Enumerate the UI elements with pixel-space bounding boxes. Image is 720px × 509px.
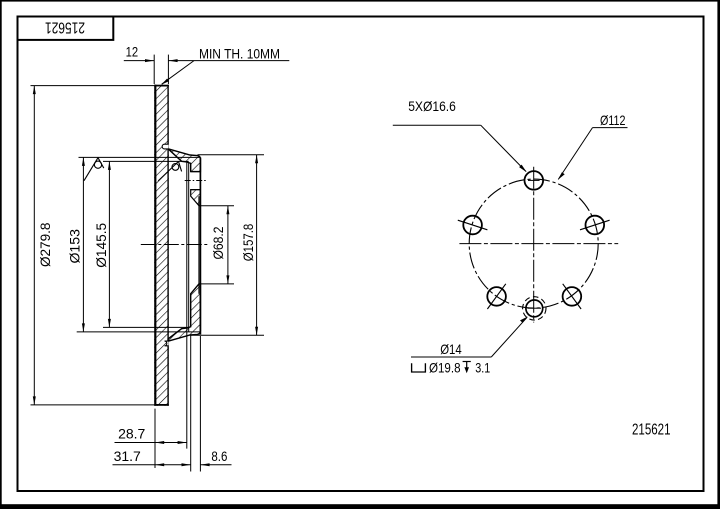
hat inner face line A2 bbox=[188, 163, 190, 332]
hat neck and flange lower (hatched) bbox=[168, 284, 200, 341]
dim 8.6: line with left arrow bbox=[200, 464, 231, 466]
bore-side edge line bbox=[198, 196, 200, 294]
leader Ø112: arrow bbox=[558, 172, 565, 180]
rotor friction band hatch fill bbox=[154, 85, 169, 406]
dim 31.7: arrow right bbox=[182, 463, 191, 466]
svg-text:8.6: 8.6 bbox=[211, 448, 227, 464]
hat neck and flange upper (hatched) bbox=[168, 149, 200, 172]
dim Ø145.5: arrow down bbox=[108, 319, 111, 328]
surface finish symbol on Ø153 bbox=[84, 158, 104, 181]
bolt circle Ø112 (dash-dot) bbox=[469, 179, 598, 308]
bottom extension: left face bbox=[154, 409, 156, 468]
bolt hole lower-right bbox=[563, 287, 582, 306]
svg-text:215621: 215621 bbox=[632, 421, 671, 438]
svg-text:Ø157.8: Ø157.8 bbox=[240, 224, 256, 262]
surface finish symbol on Ø145.5 bbox=[158, 161, 181, 181]
leader Ø14: diagonal bbox=[491, 317, 527, 357]
outer border bottom bbox=[0, 504, 720, 509]
rotor bottom face bbox=[154, 404, 169, 406]
svg-text:Ø14: Ø14 bbox=[440, 341, 462, 357]
dim 28.7: line bbox=[115, 442, 187, 444]
dim Ø68.2: bottom extension bbox=[199, 283, 234, 285]
dim Ø68.2: top extension bbox=[199, 205, 234, 207]
svg-text:MIN TH. 10MM: MIN TH. 10MM bbox=[199, 47, 280, 62]
svg-text:28.7: 28.7 bbox=[118, 426, 145, 442]
dim Ø279.8: arrow up bbox=[33, 86, 36, 95]
bottom extension: bolt seat face bbox=[190, 335, 192, 471]
top hole horizontal tick bbox=[528, 179, 540, 181]
dim Ø157.8: vertical line bbox=[256, 155, 258, 336]
leader Ø14: arrow bbox=[520, 317, 528, 323]
dim Ø153: arrow down bbox=[82, 323, 85, 332]
bolt hole lower-left bbox=[487, 287, 506, 306]
dim Ø153: bottom extension bbox=[77, 331, 200, 333]
hat inner face line A1 bbox=[186, 162, 188, 448]
dim Ø145.5: arrow up bbox=[108, 161, 111, 170]
bolt hole upper-left bbox=[463, 216, 482, 235]
leader MIN TH. 10MM: arrow bbox=[161, 79, 169, 85]
svg-text:Ø112: Ø112 bbox=[600, 112, 626, 128]
svg-text:5XØ16.6: 5XØ16.6 bbox=[408, 98, 456, 114]
slash lower-right hole bbox=[563, 284, 581, 309]
slash lower-left hole bbox=[487, 284, 505, 309]
svg-text:3.1: 3.1 bbox=[475, 359, 490, 375]
svg-text:12: 12 bbox=[126, 44, 139, 60]
hat web band below bolt hole with bore chamfer (hatched) bbox=[191, 190, 201, 206]
dim Ø68.2: arrow down bbox=[226, 275, 229, 284]
dim Ø153: arrow up bbox=[82, 157, 85, 166]
svg-text:Ø153: Ø153 bbox=[67, 229, 83, 264]
dim Ø157.8: arrow down bbox=[255, 327, 258, 336]
svg-text:31.7: 31.7 bbox=[114, 448, 141, 464]
dim Ø279.8: bottom extension bbox=[31, 404, 155, 406]
outer border left bbox=[0, 0, 2, 509]
svg-text:Ø145.5: Ø145.5 bbox=[93, 223, 109, 268]
horizontal centerline bbox=[459, 243, 618, 245]
dim 12: arrow right-pointing bbox=[145, 59, 154, 62]
dim 12: line right part merged with leader shoulder bbox=[168, 60, 289, 62]
counterbore Ø19.8 dashed circle bbox=[523, 297, 546, 320]
bolt hole upper-right bbox=[586, 216, 605, 235]
title block box bbox=[18, 17, 114, 40]
svg-text:Ø279.8: Ø279.8 bbox=[37, 222, 53, 267]
bottom extension: mounting face bbox=[199, 336, 201, 472]
rotor left face bbox=[154, 85, 156, 406]
dim Ø145.5: bottom extension bbox=[103, 326, 189, 328]
dim 28.7: arrow right bbox=[178, 441, 187, 444]
dim Ø153: top extension bbox=[79, 156, 201, 158]
svg-text:215621: 215621 bbox=[45, 19, 85, 36]
outer border right bbox=[717, 0, 720, 509]
dim 12: line left part bbox=[124, 60, 154, 62]
dim Ø279.8: arrow down bbox=[33, 396, 36, 405]
cast relief notch top bbox=[162, 144, 168, 149]
slash upper-right hole bbox=[580, 220, 610, 230]
mounting face line bbox=[199, 158, 201, 335]
dim Ø279.8: vertical line bbox=[33, 86, 35, 405]
bolt hole section top edge bbox=[191, 171, 201, 173]
locating hole Ø14 (bottom) bbox=[526, 300, 543, 317]
leader 5XØ16.6: diagonal bbox=[481, 125, 526, 171]
dim 8.6: arrow bbox=[200, 463, 209, 466]
dim 31.7: arrow left bbox=[155, 463, 164, 466]
dim 31.7: line bbox=[113, 464, 191, 466]
depth symbol bbox=[463, 362, 471, 368]
dim Ø145.5: top extension bbox=[103, 160, 189, 162]
dim 12: extension line left bbox=[153, 55, 155, 84]
dim Ø279.8: top extension bbox=[31, 85, 155, 87]
dim Ø68.2: vertical line bbox=[227, 206, 229, 284]
cast relief notch bottom bbox=[165, 341, 169, 346]
bottom hole horizontal tick bbox=[528, 307, 542, 309]
leader 5XØ16.6: arrow bbox=[519, 165, 527, 173]
dim Ø157.8: arrow up bbox=[255, 155, 258, 164]
svg-text:Ø19.8: Ø19.8 bbox=[429, 359, 461, 375]
bolt hole top bbox=[525, 171, 544, 190]
dim Ø153: vertical line bbox=[82, 157, 84, 332]
dim Ø145.5: vertical line bbox=[108, 161, 110, 327]
svg-text:Ø68.2: Ø68.2 bbox=[210, 226, 226, 259]
rotor right face bbox=[167, 85, 169, 406]
leader 5XØ16.6: shoulder bbox=[393, 124, 481, 126]
bolt hole section bottom edge bbox=[191, 189, 201, 191]
counterbore symbol bbox=[412, 363, 426, 372]
dim 28.7: arrow left bbox=[155, 441, 164, 444]
leader Ø112: diagonal bbox=[558, 128, 592, 180]
leader MIN TH. 10MM: diagonal bbox=[162, 61, 194, 85]
dim Ø157.8: bottom extension bbox=[191, 334, 264, 336]
rotor top face bbox=[154, 85, 169, 87]
dim Ø68.2: arrow up bbox=[226, 206, 229, 215]
leader Ø112: shoulder bbox=[593, 127, 628, 129]
vertical centerline bbox=[533, 167, 535, 323]
bolt hole axis line bbox=[185, 180, 208, 182]
disc axis centerline bbox=[141, 244, 208, 246]
slash upper-left hole bbox=[458, 220, 488, 230]
dim Ø157.8: top extension bbox=[198, 154, 265, 156]
dim 12: extension line right bbox=[167, 55, 169, 84]
outer border top bbox=[0, 0, 720, 2]
leader Ø14: shoulder bbox=[411, 356, 491, 358]
dim 12: arrow left-pointing bbox=[168, 59, 177, 62]
